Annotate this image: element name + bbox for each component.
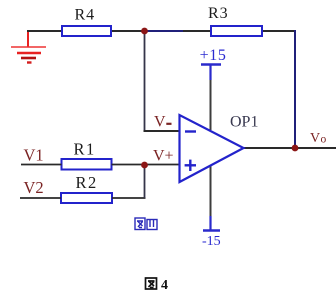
svg-text:+15: +15 — [200, 47, 227, 64]
svg-text:R1: R1 — [74, 140, 96, 159]
svg-text:o: o — [321, 134, 327, 146]
svg-text:V: V — [310, 131, 320, 146]
svg-text:V+: V+ — [153, 148, 174, 165]
svg-text:R4: R4 — [75, 7, 96, 24]
svg-text:V1: V1 — [24, 146, 44, 165]
svg-text:R2: R2 — [76, 173, 98, 192]
svg-text:V2: V2 — [24, 178, 44, 197]
svg-text:R3: R3 — [208, 5, 229, 22]
svg-text:OP1: OP1 — [230, 114, 258, 131]
svg-text:V: V — [154, 114, 166, 131]
svg-text:-15: -15 — [202, 234, 221, 249]
svg-text:4: 4 — [161, 278, 168, 293]
